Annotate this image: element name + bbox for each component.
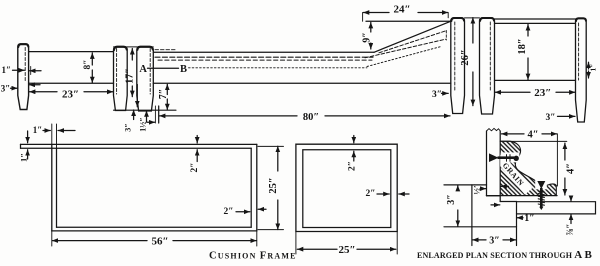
hidden short dash at post <box>155 49 176 51</box>
svg-text:24″: 24″ <box>393 3 410 15</box>
vertical screw <box>537 181 545 210</box>
section post bar right edge <box>499 131 501 202</box>
dim 18in: vertical line with arrows <box>527 25 529 37</box>
ramp solid diagonal <box>374 21 450 52</box>
svg-text:4″: 4″ <box>565 163 576 174</box>
svg-text:1″: 1″ <box>19 153 29 162</box>
dim 80in: line, arrows, extension <box>159 115 297 117</box>
svg-text:80″: 80″ <box>303 112 319 123</box>
post P2 middle (double) <box>114 46 128 110</box>
svg-text:17″: 17″ <box>125 68 136 84</box>
section line dotted continuation <box>189 67 368 69</box>
svg-text:ENLARGED PLAN SECTION THROUGH: ENLARGED PLAN SECTION THROUGH A B <box>417 249 593 261</box>
rail bottom edge main <box>153 82 451 84</box>
svg-text:3″: 3″ <box>546 113 556 123</box>
section rail piece top edge with extension <box>444 184 487 186</box>
hidden ramp diagonal 1 <box>379 31 447 53</box>
svg-text:B: B <box>180 64 187 75</box>
dim 7in: vertical line with arrows <box>166 84 168 94</box>
post P2 feet base line <box>114 109 177 111</box>
svg-text:2″: 2″ <box>190 163 200 173</box>
dim 2in big-right: arrows <box>236 211 250 213</box>
svg-text:CUSHION FRAME: CUSHION FRAME <box>209 251 297 262</box>
post P1 hidden tenon line <box>24 48 26 83</box>
section line A-B solid <box>148 67 179 69</box>
svg-text:7″: 7″ <box>158 89 169 100</box>
svg-text:26″: 26″ <box>460 49 471 65</box>
dim 1in section: arrows <box>517 217 523 219</box>
back top rail upper edge <box>495 18 576 20</box>
dim 56in: line, arrows, extensions <box>52 240 147 242</box>
section rail piece bottom with extension <box>444 226 517 228</box>
svg-text:23″: 23″ <box>62 89 79 101</box>
dim 4in top: line arrows extensions <box>501 133 524 135</box>
post P1 left <box>18 44 29 110</box>
hidden dashed line along rail <box>155 56 373 58</box>
dim 1in left post: arrows <box>13 69 25 71</box>
svg-text:3″: 3″ <box>124 123 133 131</box>
hidden vertical at ramp end <box>445 31 447 41</box>
big plan rect right member <box>250 148 252 227</box>
dim 4in right: line arrows extension <box>564 143 566 160</box>
svg-text:23″: 23″ <box>534 87 551 99</box>
rail top edge between P2 and ramp <box>153 51 374 53</box>
dim 9in: vertical line with arrows <box>370 22 372 32</box>
svg-text:3″: 3″ <box>489 235 500 246</box>
hidden ramp dotted <box>367 47 441 67</box>
back top rail lower edge <box>495 22 576 24</box>
hidden ramp diagonal 2 <box>365 39 446 58</box>
section post bar jagged top <box>487 128 501 131</box>
right rail of section <box>517 202 596 214</box>
tick for 1in dim <box>30 67 32 75</box>
dim 17in: vertical line with arrows <box>131 49 133 61</box>
svg-text:1″: 1″ <box>33 125 43 135</box>
rail bottom edge left <box>29 82 114 84</box>
svg-text:56″: 56″ <box>151 235 168 247</box>
small plan rect inner <box>303 150 391 228</box>
horizontal screw white halo <box>501 152 520 162</box>
svg-text:3″: 3″ <box>1 83 11 93</box>
dim 1.5in under P2: arrow <box>146 111 148 122</box>
dim 1in far right: arrows <box>588 62 590 69</box>
dim 2in big-top: arrows <box>196 150 198 162</box>
small plan rect outer <box>296 144 397 231</box>
dim 23in right: line and arrows <box>495 91 530 93</box>
svg-text:18″: 18″ <box>517 38 528 54</box>
dim 3in left section: line arrows <box>457 185 459 190</box>
moulding bottom edge <box>487 195 558 197</box>
dim 8in: vertical line with arrows <box>91 53 93 65</box>
back top level line <box>366 20 450 22</box>
post P4 heavy cap <box>576 18 586 21</box>
dim 3in under P2: arrow <box>133 110 135 120</box>
big plan rect left member <box>51 144 53 231</box>
svg-text:1″: 1″ <box>589 64 598 72</box>
dim 25in bottom: line, arrows, extensions <box>297 248 337 250</box>
post P4 hidden line <box>578 23 580 80</box>
svg-text:25″: 25″ <box>268 177 279 193</box>
dim 3in bottom section: line arrows extensions <box>473 239 487 241</box>
big plan rect outer top rail (protruding left) <box>21 143 257 145</box>
post P2 hidden lines <box>116 49 118 95</box>
moulding hatched profile <box>500 141 556 195</box>
dim 24in: line, arrows, extensions <box>363 12 389 14</box>
section step vertical <box>516 202 518 246</box>
svg-text:2″: 2″ <box>348 161 358 171</box>
vertical screw halo <box>535 179 547 189</box>
svg-text:3″: 3″ <box>432 90 442 100</box>
post P2 heavy caps <box>114 47 153 50</box>
dim 2in small-right: arrows <box>377 193 389 195</box>
dim 23in left: line and arrows <box>29 91 57 93</box>
section step horizontal <box>500 201 516 203</box>
svg-text:9″: 9″ <box>361 32 372 43</box>
horizontal screw <box>489 153 519 162</box>
svg-text:1″: 1″ <box>524 213 535 224</box>
svg-text:A: A <box>139 64 147 75</box>
rail top edge between P1 and P2 <box>29 51 114 53</box>
dim half-in section: arrows <box>481 188 487 190</box>
post P4 right end <box>576 18 587 122</box>
svg-text:½″: ½″ <box>471 183 481 194</box>
post P3 top connecting line <box>465 17 480 19</box>
dim 1in left rotated: arrows <box>27 150 29 159</box>
dim 3in left post: arrows <box>11 87 18 89</box>
svg-text:8″: 8″ <box>83 60 93 70</box>
svg-text:2″: 2″ <box>224 207 234 217</box>
svg-text:25″: 25″ <box>338 244 355 256</box>
dim 3in bottom right: arrow <box>558 115 576 117</box>
moulding outline <box>500 141 556 195</box>
grain band white clipped <box>495 153 533 194</box>
section post bar left edge <box>486 131 488 196</box>
dim 7/8in section: arrows <box>570 197 572 202</box>
dim 25in mid: line, arrows, extensions <box>277 146 279 171</box>
section bar bottom <box>487 195 501 197</box>
dim 2in small-top: arrows <box>353 151 355 161</box>
svg-text:2″: 2″ <box>366 189 376 199</box>
post P1 heavy cap <box>18 44 28 47</box>
back bottom rail line <box>495 79 576 81</box>
svg-text:1″: 1″ <box>2 65 12 75</box>
svg-text:1½″: 1½″ <box>138 117 147 131</box>
big plan rect left end cap of rail <box>20 144 22 148</box>
post P3 hidden lines <box>454 22 456 91</box>
post P2 top connecting line <box>114 46 154 48</box>
post P3 big right (double) <box>451 18 465 114</box>
section rail piece left edge <box>471 185 473 246</box>
dim 1in top-left: arrows and extensions <box>43 130 50 132</box>
dim 3in at big post left: arrow <box>442 92 449 94</box>
dim 26in: vertical line with arrows <box>472 18 474 43</box>
svg-text:⅞″: ⅞″ <box>565 224 575 236</box>
svg-text:4″: 4″ <box>527 129 538 140</box>
svg-text:3″: 3″ <box>446 194 457 205</box>
big plan rect bottom member <box>57 226 252 228</box>
post P3 heavy caps <box>451 18 494 21</box>
